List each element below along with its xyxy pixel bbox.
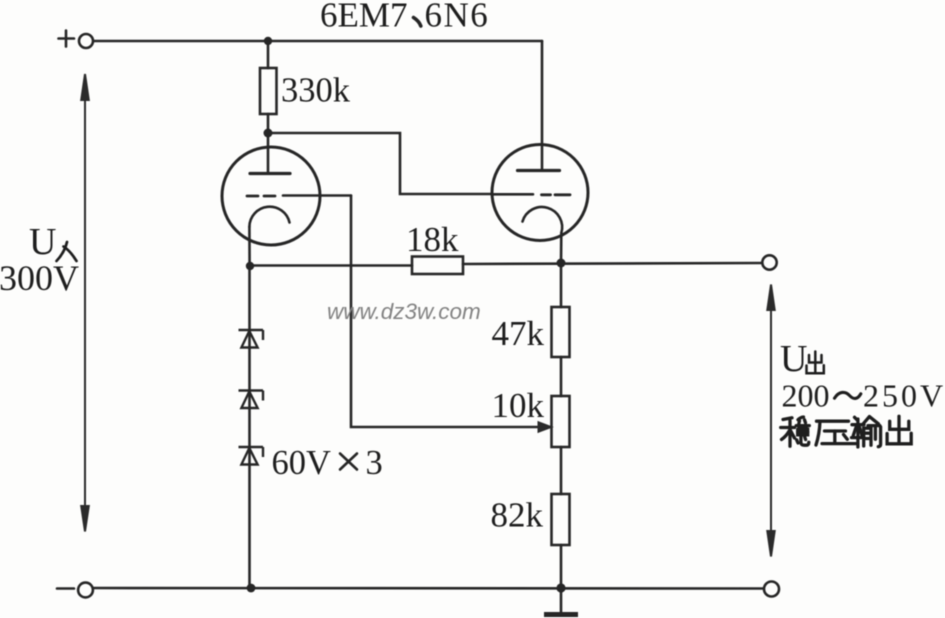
svg-text:6EM7: 6EM7 — [320, 0, 408, 35]
svg-text:U: U — [780, 338, 807, 380]
svg-text:300V: 300V — [0, 258, 79, 298]
svg-text:47k: 47k — [492, 314, 545, 353]
svg-text:18k: 18k — [406, 220, 459, 259]
svg-text:250V: 250V — [863, 378, 945, 414]
svg-text:U: U — [29, 221, 56, 263]
svg-text:3: 3 — [366, 444, 383, 482]
svg-text:6N6: 6N6 — [425, 0, 490, 35]
svg-text:200: 200 — [782, 378, 830, 414]
svg-text:10k: 10k — [492, 386, 545, 425]
svg-text:330k: 330k — [281, 72, 351, 110]
svg-text:82k: 82k — [491, 496, 544, 535]
svg-text:60V: 60V — [272, 444, 332, 482]
svg-text:www.dz3w.com: www.dz3w.com — [327, 299, 481, 324]
